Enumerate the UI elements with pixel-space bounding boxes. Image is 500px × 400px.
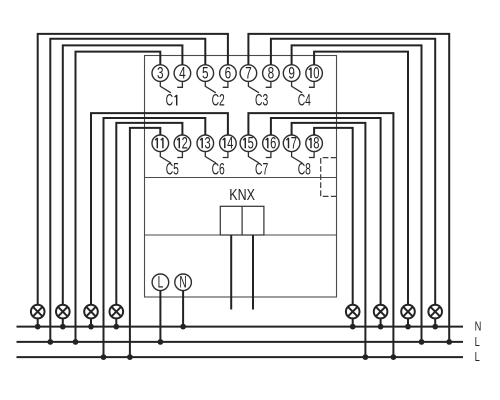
svg-text:8: 8 bbox=[313, 133, 319, 152]
device terminal N bbox=[175, 273, 192, 291]
svg-text:C8: C8 bbox=[298, 160, 311, 178]
wire lamp E2 to N bus bbox=[62, 318, 64, 326]
svg-text:N: N bbox=[179, 273, 186, 291]
svg-text:C3: C3 bbox=[255, 91, 268, 109]
svg-text:6: 6 bbox=[270, 133, 276, 152]
wire terminal 9 to L bus bbox=[292, 45, 422, 342]
junction terminal 11 on L2 bus bbox=[127, 354, 133, 360]
wire lamp E7 to N bus bbox=[407, 318, 409, 326]
wire lamp E3 to N bus bbox=[90, 318, 92, 326]
wire terminal 17 to L2 bus bbox=[292, 123, 366, 357]
svg-text:3: 3 bbox=[157, 65, 164, 83]
svg-text:7: 7 bbox=[245, 65, 252, 83]
terminal 3 bbox=[152, 65, 169, 83]
junction device L on L bus bbox=[158, 339, 164, 345]
wire terminal 5 to L bus bbox=[50, 39, 205, 342]
terminal 12 bbox=[174, 133, 191, 152]
N bus line bbox=[17, 326, 464, 328]
svg-text:N: N bbox=[475, 320, 482, 334]
svg-text:L: L bbox=[158, 273, 164, 291]
wire terminal 7 to L bus bbox=[248, 34, 449, 342]
device terminal L bbox=[152, 273, 169, 291]
terminal 4 bbox=[174, 65, 191, 83]
svg-text:KNX: KNX bbox=[229, 185, 255, 203]
wire lamp E5 to N bus bbox=[352, 318, 354, 326]
terminal 9 bbox=[283, 65, 300, 83]
relay contact C5 bbox=[160, 152, 182, 163]
KNX bus wire - bbox=[252, 235, 254, 310]
actuator device outline U1 bbox=[145, 56, 337, 298]
svg-text:8: 8 bbox=[268, 65, 275, 83]
junction terminal 15 on L2 bus bbox=[391, 354, 397, 360]
wire terminal 15 to L2 bus bbox=[248, 113, 393, 357]
wire terminal 6 to lamp E1 bbox=[38, 34, 228, 305]
relay contact C3 bbox=[248, 81, 271, 92]
svg-text:C6: C6 bbox=[212, 160, 225, 178]
terminal 11 bbox=[152, 135, 169, 152]
junction lamp E7 on N bus bbox=[405, 324, 411, 330]
wire terminal 10 to lamp E7 bbox=[314, 52, 408, 305]
junction terminal 9 on L bus bbox=[419, 339, 425, 345]
junction lamp E5 on N bus bbox=[350, 324, 356, 330]
svg-text:C5: C5 bbox=[166, 160, 179, 178]
junction lamp E1 on N bus bbox=[35, 324, 41, 330]
svg-text:5: 5 bbox=[248, 133, 254, 152]
junction lamp E4 on N bus bbox=[113, 324, 119, 330]
svg-text:6: 6 bbox=[225, 65, 232, 83]
svg-text:9: 9 bbox=[288, 65, 295, 83]
lamp E4 bbox=[110, 305, 124, 319]
terminal 10 bbox=[306, 63, 323, 82]
junction terminal 5 on L bus bbox=[47, 339, 53, 345]
wire lamp E8 to N bus bbox=[434, 318, 436, 326]
terminal 16 bbox=[263, 133, 280, 152]
terminal 17 bbox=[283, 133, 300, 152]
wire terminal 11 to L2 bus bbox=[130, 128, 160, 357]
relay contact C2 bbox=[205, 81, 228, 92]
junction terminal 13 on L2 bus bbox=[101, 354, 107, 360]
svg-text:C: C bbox=[166, 91, 174, 109]
label C1 bbox=[166, 91, 177, 109]
svg-text:2: 2 bbox=[182, 133, 188, 152]
relay contact C8 bbox=[292, 152, 315, 163]
terminal 14 bbox=[220, 133, 237, 152]
lamp E3 bbox=[84, 305, 98, 319]
svg-text:C4: C4 bbox=[298, 91, 311, 109]
wire terminal 3 to L bus bbox=[76, 52, 161, 342]
wire terminal 13 to L2 bus bbox=[104, 118, 206, 357]
lamp E1 bbox=[31, 305, 45, 319]
device internal divider (outputs / KNX section) bbox=[145, 177, 337, 179]
wire lamp E4 to N bus bbox=[115, 318, 117, 326]
wire terminal 14 to lamp E3 bbox=[91, 113, 228, 305]
svg-text:4: 4 bbox=[179, 65, 186, 83]
L2 bus line bbox=[17, 356, 464, 358]
wire device N terminal to N bus bbox=[182, 291, 184, 327]
svg-text:5: 5 bbox=[202, 65, 209, 83]
junction terminal 17 on L2 bus bbox=[363, 354, 369, 360]
lamp E2 bbox=[56, 305, 70, 319]
svg-text:3: 3 bbox=[204, 133, 210, 152]
KNX bus connector block bbox=[220, 206, 264, 235]
junction device N on N bus bbox=[180, 324, 186, 330]
wire terminal 18 to lamp E5 bbox=[314, 128, 353, 305]
KNX bus wire + bbox=[230, 235, 232, 310]
wire lamp E1 to N bus bbox=[37, 318, 39, 326]
svg-text:4: 4 bbox=[227, 133, 233, 152]
svg-text:7: 7 bbox=[291, 133, 297, 152]
svg-text:L: L bbox=[475, 336, 480, 350]
L bus line bbox=[17, 341, 464, 343]
terminal 15 bbox=[240, 133, 257, 152]
wire terminal 12 to lamp E4 bbox=[116, 123, 182, 305]
junction lamp E6 on N bus bbox=[378, 324, 384, 330]
svg-text:C2: C2 bbox=[212, 91, 225, 109]
wire terminal 8 to lamp E8 bbox=[271, 39, 435, 305]
lamp E8 bbox=[428, 305, 442, 319]
wire lamp E6 to N bus bbox=[380, 318, 382, 326]
lamp E6 bbox=[374, 305, 388, 319]
relay contact C6 bbox=[205, 152, 228, 163]
terminal 13 bbox=[197, 133, 214, 152]
terminal 5 bbox=[197, 65, 214, 83]
junction lamp E2 on N bus bbox=[60, 324, 66, 330]
junction terminal 7 on L bus bbox=[446, 339, 452, 345]
wire terminal 16 to lamp E6 bbox=[271, 118, 381, 305]
junction lamp E8 on N bus bbox=[432, 324, 438, 330]
device internal divider (KNX terminal shelf) bbox=[145, 234, 337, 236]
terminal 7 bbox=[240, 65, 257, 83]
terminal 18 bbox=[306, 133, 323, 152]
lamp E7 bbox=[401, 305, 415, 319]
junction lamp E3 on N bus bbox=[88, 324, 94, 330]
relay contact C1 bbox=[160, 81, 182, 92]
terminal 6 bbox=[220, 65, 237, 83]
svg-text:0: 0 bbox=[313, 63, 319, 82]
relay contact C7 bbox=[248, 152, 271, 163]
junction terminal 3 on L bus bbox=[73, 339, 79, 345]
svg-text:L: L bbox=[475, 351, 480, 365]
svg-text:C7: C7 bbox=[255, 160, 268, 178]
lamp E5 bbox=[346, 305, 360, 319]
wire terminal 4 to lamp E2 bbox=[63, 45, 183, 304]
relay contact C4 bbox=[292, 81, 315, 92]
dashed extension-unit outline bbox=[321, 158, 337, 197]
terminal 8 bbox=[263, 65, 280, 83]
wire device L terminal to L bus bbox=[159, 291, 161, 342]
